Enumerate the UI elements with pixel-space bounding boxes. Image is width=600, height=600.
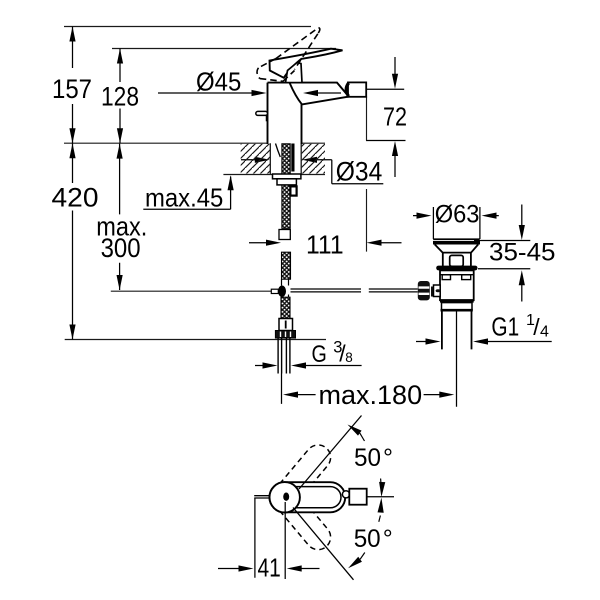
svg-text:G1: G1 [491,311,519,341]
dimension 41 [218,499,320,580]
svg-text:°: ° [383,444,393,472]
rod pivot joint [278,286,286,297]
aerator [348,82,366,96]
countertop bottom line [223,143,325,174]
angle arrows [346,422,362,436]
dimension 128 [119,49,121,144]
cartridge circle (top view) [270,482,300,512]
svg-text:50: 50 [354,444,381,472]
bottom reference line (hose end level) [65,339,326,341]
center stem (top view) [283,493,289,501]
50 degree diagonals [293,416,362,580]
svg-text:72: 72 [383,101,407,131]
dimension 420 [72,143,74,339]
pop-up rod stub (top view) [254,496,270,498]
small fitting block [290,186,296,195]
mounting nut [277,179,296,185]
lever raised (dashed) [257,28,320,82]
dimension 72 (spout height) [366,57,406,177]
svg-text:41: 41 [258,552,281,582]
pop-up plug housing [450,255,464,266]
dimension 157 [72,27,74,144]
second supply hose (edge-on, dark) [291,144,294,172]
dimension max.180 [282,310,457,407]
svg-text:300: 300 [101,233,141,263]
svg-text:G: G [312,341,327,368]
svg-text:8: 8 [345,350,353,365]
drain flange (black) [436,266,477,271]
overflow slot right [462,275,471,280]
solid top view body [270,482,346,512]
hose connector sleeve [279,230,290,240]
dimension 35-45 [474,205,530,302]
svg-text:max.45: max.45 [145,182,223,212]
pop-up rod (horizontal) [111,290,278,292]
body bottom seal band [440,299,474,302]
braided supply hose upper section [282,144,290,229]
extension line from spout outlet [366,97,368,252]
centerline (top view) [367,496,394,498]
drain body [440,270,474,300]
spout outlet (top view) [349,489,366,505]
funnel taper and waist [435,244,479,266]
funnel rim thick underside [433,241,480,245]
svg-text:Ø45: Ø45 [196,67,241,97]
G3/8 hose nut [275,331,295,339]
rod clamp block [271,289,278,293]
lever (solid) [270,49,343,78]
label G1 1/4 (drain thread) [416,341,552,343]
svg-text:4: 4 [540,324,549,341]
svg-text:max.180: max.180 [319,380,423,410]
rod entry housing [434,285,441,297]
label Ø34 (hole diameter) [241,160,383,184]
drain funnel rim [433,238,480,240]
dashed swing positions [265,440,335,555]
svg-text:Ø63: Ø63 [435,201,480,229]
svg-text:35-45: 35-45 [489,239,556,267]
svg-text:128: 128 [101,82,139,112]
svg-text:111: 111 [306,229,344,259]
overflow slot left [442,275,450,280]
dimension 111 [249,242,402,244]
pop-up knob rod on body left [256,111,268,115]
lever pivot cap [286,63,303,83]
dimension Ø63 (drain flange diameter) [413,207,499,239]
dimension max.300 [119,144,121,290]
top reference line (spout height level) [64,26,311,28]
faucet body outline [268,83,349,144]
G1 1/4 tailpipe [442,310,472,350]
countertop reference line [64,142,325,144]
label G 3/8 (hose thread) [255,365,362,367]
horizontal actuating rod to drain [291,289,418,292]
lock collar [442,303,473,310]
lever inner outline (top view) [296,487,341,508]
label max.45 (countertop thickness) [143,177,230,210]
knurled adjusting knob [418,281,430,300]
mounting washer under counter [273,174,301,179]
svg-text:Ø34: Ø34 [336,156,383,186]
spout neck circle (top view) [342,491,349,498]
svg-text:50: 50 [354,525,381,553]
svg-text:420: 420 [52,183,99,213]
braided hose middle section [282,252,291,279]
dimension Ø45 (faucet body diameter) [158,92,341,94]
countertop hatching [241,144,325,174]
second reference line (handle level) [112,48,336,50]
svg-text:157: 157 [52,74,92,104]
hose wall lines at pivot [282,279,289,297]
shank taper curve in mounting hole [276,144,281,158]
braided hose lower section [281,297,290,318]
G3/8 threaded pipe end [278,338,290,374]
hose end collar [279,319,293,331]
svg-text:°: ° [383,525,393,553]
